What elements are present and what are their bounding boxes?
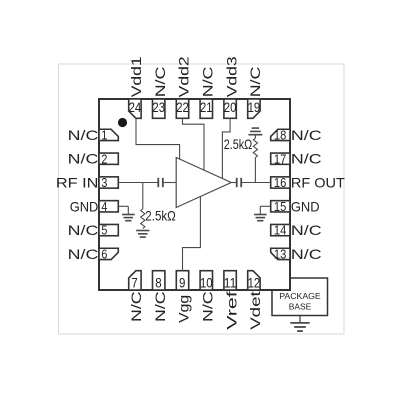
- svg-text:N/C: N/C: [68, 246, 99, 262]
- svg-text:N/C: N/C: [128, 291, 144, 322]
- svg-text:BASE: BASE: [289, 301, 312, 311]
- svg-text:GND: GND: [70, 198, 99, 214]
- svg-text:2: 2: [101, 152, 107, 166]
- svg-text:N/C: N/C: [291, 151, 322, 167]
- svg-text:6: 6: [101, 248, 107, 262]
- svg-text:N/C: N/C: [200, 67, 216, 98]
- svg-text:20: 20: [224, 99, 237, 115]
- svg-text:17: 17: [274, 152, 286, 166]
- svg-text:N/C: N/C: [200, 291, 216, 322]
- svg-text:9: 9: [179, 275, 186, 291]
- svg-text:N/C: N/C: [68, 151, 99, 167]
- svg-text:15: 15: [274, 200, 286, 214]
- svg-text:7: 7: [131, 275, 138, 291]
- svg-text:N/C: N/C: [68, 127, 99, 143]
- svg-text:18: 18: [274, 129, 286, 143]
- svg-text:N/C: N/C: [68, 222, 99, 238]
- svg-text:13: 13: [274, 248, 286, 262]
- svg-text:N/C: N/C: [291, 222, 322, 238]
- svg-text:2.5kΩ: 2.5kΩ: [224, 136, 253, 152]
- svg-text:8: 8: [155, 275, 162, 291]
- svg-text:Vref: Vref: [223, 291, 239, 330]
- svg-text:2.5kΩ: 2.5kΩ: [145, 208, 176, 224]
- svg-text:19: 19: [248, 99, 261, 115]
- svg-text:Vdd1: Vdd1: [128, 56, 144, 97]
- svg-text:Vgg: Vgg: [176, 295, 192, 323]
- svg-text:16: 16: [274, 176, 286, 190]
- svg-text:N/C: N/C: [152, 291, 168, 322]
- svg-text:23: 23: [152, 99, 165, 115]
- svg-text:1: 1: [101, 129, 107, 143]
- svg-text:21: 21: [200, 99, 213, 115]
- svg-text:22: 22: [176, 99, 189, 115]
- svg-text:10: 10: [200, 275, 213, 291]
- svg-text:5: 5: [101, 224, 107, 238]
- svg-text:11: 11: [224, 275, 237, 291]
- svg-text:Vdd3: Vdd3: [223, 56, 239, 97]
- svg-text:RF IN: RF IN: [56, 175, 99, 191]
- svg-text:N/C: N/C: [291, 127, 322, 143]
- svg-text:N/C: N/C: [291, 246, 322, 262]
- svg-text:N/C: N/C: [247, 67, 263, 98]
- svg-text:4: 4: [101, 200, 107, 214]
- svg-text:3: 3: [101, 176, 107, 190]
- svg-text:N/C: N/C: [152, 67, 168, 98]
- svg-text:Vdet: Vdet: [247, 291, 263, 330]
- svg-text:24: 24: [129, 99, 142, 115]
- svg-text:14: 14: [274, 224, 286, 238]
- svg-text:RF OUT: RF OUT: [291, 175, 345, 191]
- svg-text:Vdd2: Vdd2: [176, 56, 192, 97]
- svg-text:PACKAGE: PACKAGE: [279, 291, 321, 301]
- svg-text:12: 12: [248, 275, 261, 291]
- svg-text:GND: GND: [291, 198, 320, 214]
